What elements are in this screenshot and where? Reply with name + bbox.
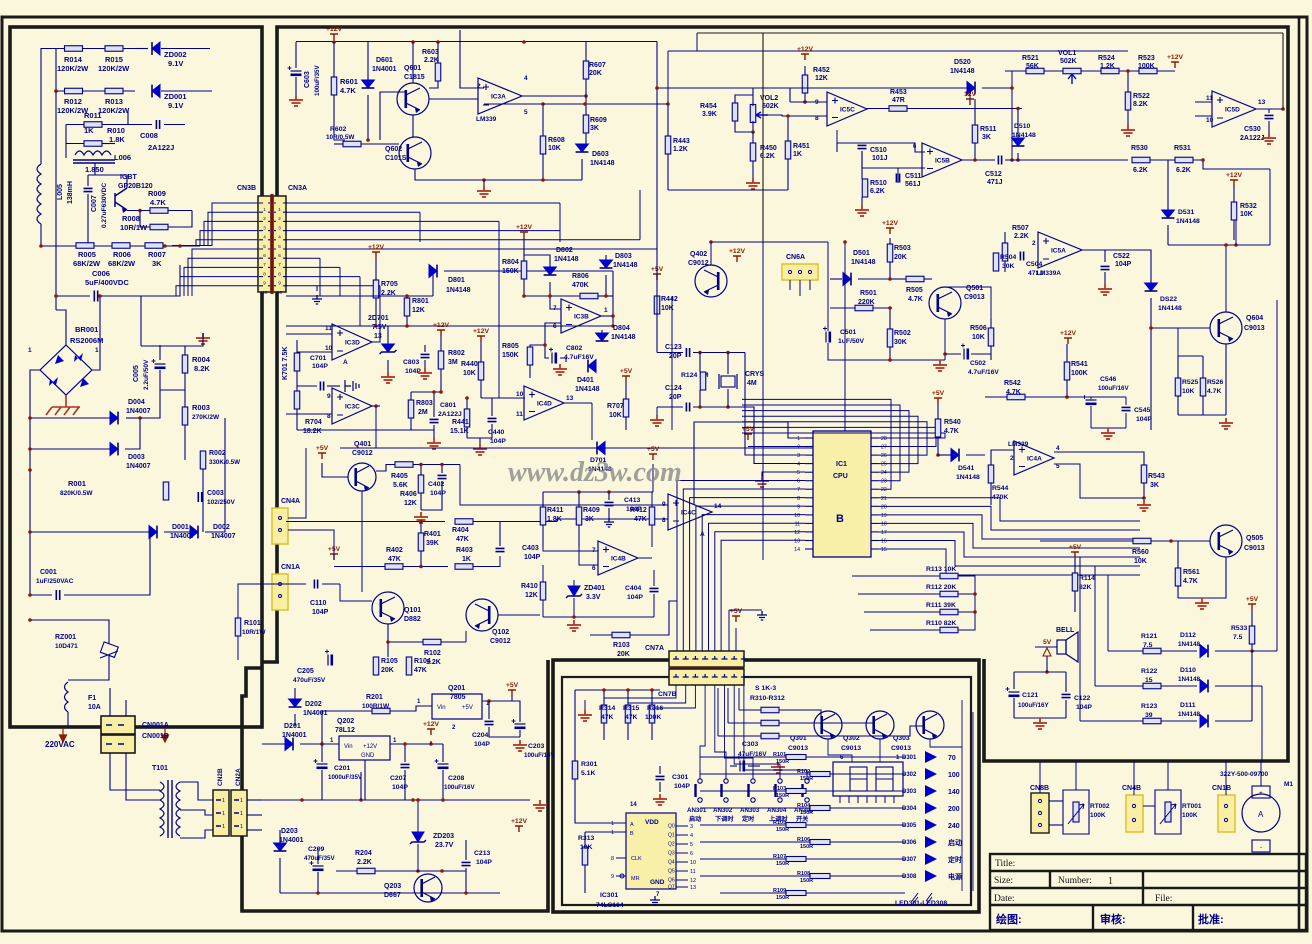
wire — [828, 343, 890, 360]
wire — [879, 549, 1140, 575]
wire — [1235, 220, 1237, 245]
svg-text:100uF/35V: 100uF/35V — [314, 65, 321, 96]
wire — [388, 624, 423, 642]
wire — [962, 159, 995, 161]
ground — [746, 178, 760, 189]
switch AN302 — [724, 779, 728, 783]
wire — [413, 464, 460, 466]
resistor R524 — [1101, 68, 1119, 74]
svg-text:11: 11 — [795, 521, 800, 527]
wire — [56, 295, 90, 297]
power +5V cn7a — [732, 616, 740, 622]
wire — [286, 325, 613, 327]
svg-text:4.7K: 4.7K — [1207, 388, 1221, 395]
wire — [1065, 672, 1067, 692]
wire — [440, 336, 442, 351]
wire — [524, 255, 550, 268]
wire — [718, 735, 761, 737]
svg-text:R010: R010 — [107, 126, 125, 135]
wire — [787, 159, 789, 190]
wire — [444, 270, 613, 272]
resistor R010 — [84, 141, 102, 147]
wire — [659, 766, 661, 774]
svg-text:23.7V: 23.7V — [435, 842, 454, 849]
capacitor C207 — [401, 764, 410, 767]
wire — [160, 346, 185, 355]
svg-text:CN3B: CN3B — [237, 185, 256, 192]
wire — [1225, 344, 1227, 415]
svg-text:D882: D882 — [404, 616, 421, 623]
wire — [549, 282, 551, 296]
wire — [417, 844, 419, 871]
svg-text:R523: R523 — [1138, 55, 1155, 62]
svg-text:15: 15 — [881, 547, 887, 553]
svg-text:R524: R524 — [1098, 55, 1115, 62]
wire — [696, 506, 805, 651]
wire — [585, 133, 587, 147]
wire — [433, 392, 435, 417]
switch AN301 — [698, 779, 702, 783]
svg-text:R806: R806 — [572, 273, 589, 280]
capacitor C502 — [963, 349, 965, 360]
svg-text:R012: R012 — [64, 97, 82, 106]
svg-text:+12V: +12V — [511, 818, 528, 825]
wire — [752, 121, 754, 132]
svg-text:R121: R121 — [1141, 633, 1157, 640]
wire — [768, 115, 827, 116]
wire — [420, 551, 422, 567]
svg-text:R105: R105 — [381, 658, 398, 665]
svg-text:T101: T101 — [152, 765, 168, 772]
capacitor C205 — [327, 655, 329, 666]
wire — [1256, 108, 1283, 110]
resistor R505 — [906, 276, 924, 282]
svg-text:100uF/16V: 100uF/16V — [1098, 385, 1129, 392]
svg-text:1.850: 1.850 — [85, 165, 104, 174]
svg-text:2: 2 — [278, 216, 281, 221]
svg-text:CN001A: CN001A — [142, 722, 169, 729]
ground — [855, 205, 869, 216]
svg-text:CN6A: CN6A — [786, 254, 805, 261]
wire — [286, 239, 640, 241]
wire — [585, 79, 587, 115]
power +5V — [653, 274, 661, 280]
wire — [140, 296, 142, 346]
svg-text:10K: 10K — [548, 145, 561, 152]
svg-text:R609: R609 — [590, 117, 607, 124]
wire — [861, 197, 863, 205]
wire — [1074, 591, 1076, 612]
svg-text:104P: 104P — [524, 554, 541, 561]
svg-text:C123: C123 — [665, 344, 682, 351]
svg-text:27: 27 — [881, 445, 887, 451]
wire — [1177, 396, 1179, 415]
svg-text:Q101: Q101 — [404, 607, 421, 614]
wire — [1035, 646, 1057, 648]
svg-text:10K: 10K — [972, 334, 985, 341]
svg-text:104P: 104P — [392, 784, 408, 791]
svg-text:1000uF/35V: 1000uF/35V — [328, 774, 363, 781]
svg-text:File:: File: — [1155, 894, 1172, 904]
ground — [1101, 428, 1115, 439]
svg-text:CRYS: CRYS — [745, 371, 765, 378]
wire — [1150, 298, 1152, 430]
svg-text:150R: 150R — [776, 793, 789, 799]
svg-text:Vin: Vin — [344, 744, 353, 750]
wire — [1150, 159, 1175, 161]
svg-text:6.2K: 6.2K — [870, 188, 885, 195]
svg-text:4: 4 — [1056, 445, 1060, 452]
svg-text:100: 100 — [948, 772, 960, 779]
capacitor C440 — [488, 418, 497, 421]
wire — [280, 892, 500, 894]
wire — [387, 642, 389, 657]
svg-text:13: 13 — [690, 885, 696, 891]
wire — [1091, 427, 1126, 429]
wire — [542, 525, 544, 547]
svg-text:C9013: C9013 — [964, 294, 985, 301]
svg-text:47K: 47K — [456, 536, 469, 543]
wire — [889, 347, 891, 360]
resistor R008 — [150, 224, 168, 230]
wire — [317, 872, 319, 893]
title block table — [990, 854, 1306, 930]
svg-text:24: 24 — [881, 470, 887, 476]
wire — [286, 248, 657, 250]
svg-text:启动: 启动 — [948, 838, 962, 847]
wire — [1054, 464, 1144, 498]
svg-text:IC5B: IC5B — [935, 158, 950, 165]
svg-text:1.2K: 1.2K — [426, 659, 441, 666]
svg-text:20K: 20K — [589, 70, 602, 77]
wire — [208, 212, 258, 246]
svg-text:5: 5 — [263, 244, 266, 249]
svg-text:D603: D603 — [592, 151, 609, 158]
wire — [295, 42, 297, 68]
svg-text:D307: D307 — [902, 857, 917, 863]
wire — [1161, 650, 1197, 652]
svg-text:C9012: C9012 — [490, 638, 511, 645]
resistor R311 — [761, 720, 779, 726]
svg-text:R401: R401 — [424, 531, 441, 538]
wire — [185, 333, 203, 346]
svg-text:502K: 502K — [1060, 58, 1077, 65]
svg-text:7: 7 — [263, 262, 266, 267]
wire — [489, 727, 520, 737]
opamp IC3C — [332, 388, 372, 424]
transistor Q203 D667 — [414, 874, 442, 902]
wire — [442, 744, 444, 762]
wire — [700, 841, 810, 843]
svg-text:R504: R504 — [1000, 254, 1016, 261]
svg-text:4: 4 — [278, 235, 281, 240]
svg-text:D306: D306 — [902, 840, 917, 846]
wire — [417, 800, 419, 832]
svg-text:C803: C803 — [403, 359, 419, 366]
svg-text:12K: 12K — [404, 500, 417, 507]
wire — [530, 345, 545, 347]
wire — [591, 403, 593, 440]
svg-text:www.dz3w.com: www.dz3w.com — [508, 457, 682, 488]
svg-text:8: 8 — [278, 271, 281, 276]
wire — [1125, 413, 1127, 428]
wire — [1233, 186, 1235, 202]
svg-text:Size:: Size: — [994, 876, 1013, 886]
svg-text:R006: R006 — [113, 250, 131, 259]
wire — [1151, 540, 1210, 542]
resistor R523 — [1139, 68, 1157, 74]
svg-text:R503: R503 — [894, 245, 911, 252]
svg-text:+12V: +12V — [473, 328, 490, 335]
svg-text:R452: R452 — [813, 67, 830, 74]
svg-text:+5V: +5V — [1069, 544, 1082, 551]
wire — [742, 416, 918, 463]
svg-text:10K: 10K — [1240, 211, 1253, 218]
wire — [725, 685, 754, 770]
potentiometer VOL1 — [1063, 68, 1081, 74]
svg-text:S 1K-3: S 1K-3 — [755, 685, 776, 692]
svg-text:D803: D803 — [615, 253, 632, 260]
svg-text:R608: R608 — [548, 137, 565, 144]
wire — [296, 409, 298, 430]
wire — [727, 688, 729, 723]
wire — [238, 584, 288, 618]
wire — [1178, 414, 1226, 416]
svg-text:17: 17 — [881, 530, 887, 536]
wire — [779, 710, 821, 718]
svg-text:R805: R805 — [502, 343, 519, 350]
svg-text:Vin: Vin — [437, 705, 446, 711]
wire — [1178, 328, 1210, 356]
wire — [1005, 159, 1128, 161]
svg-text:100uF/16V: 100uF/16V — [444, 784, 475, 791]
wire — [1215, 720, 1252, 722]
wire — [1168, 244, 1270, 246]
diode D003 — [110, 443, 118, 456]
wire — [1108, 650, 1143, 652]
capacitor C005 — [155, 363, 166, 365]
earth ground — [46, 395, 80, 415]
capacitor C402 — [438, 475, 447, 478]
wire — [1127, 71, 1129, 92]
svg-text:+5V: +5V — [932, 390, 945, 397]
wire — [578, 525, 580, 547]
wire — [286, 230, 560, 232]
svg-text:C404: C404 — [625, 585, 641, 592]
resistor R442 — [654, 296, 660, 314]
svg-text:R602: R602 — [330, 126, 346, 133]
wire — [297, 351, 332, 353]
capacitor gnd sym — [345, 380, 359, 392]
svg-text:5.6K: 5.6K — [393, 482, 408, 489]
wire — [1049, 824, 1063, 826]
wire — [542, 104, 544, 136]
wire — [1104, 272, 1106, 284]
svg-text:MR: MR — [631, 876, 640, 882]
resistor K701b — [294, 391, 300, 409]
wire — [410, 392, 412, 400]
wire — [340, 447, 845, 449]
svg-text:R103: R103 — [613, 642, 630, 649]
wire — [512, 701, 520, 722]
svg-text:6.2K: 6.2K — [1176, 167, 1191, 174]
svg-text:+12V: +12V — [326, 26, 343, 33]
wire — [1251, 644, 1253, 651]
svg-text:R008: R008 — [122, 214, 140, 223]
wire — [584, 700, 586, 710]
resistor R007 — [145, 243, 163, 249]
svg-text:D531: D531 — [1178, 209, 1194, 216]
wire — [683, 489, 805, 651]
svg-text:82K: 82K — [1079, 584, 1092, 591]
svg-text:18.2K: 18.2K — [303, 428, 322, 435]
wire — [830, 278, 842, 280]
svg-text:78L12: 78L12 — [335, 727, 355, 734]
resistor R404 — [455, 519, 473, 525]
wire — [411, 391, 441, 393]
wire — [56, 310, 66, 345]
resistor R301 — [572, 761, 578, 779]
svg-text:R601: R601 — [340, 77, 358, 86]
svg-text:R506: R506 — [970, 325, 987, 332]
svg-text:2A122J: 2A122J — [1240, 135, 1265, 142]
wire — [160, 370, 185, 390]
svg-text:C413: C413 — [624, 497, 640, 504]
wire — [559, 203, 561, 242]
wire — [30, 470, 150, 532]
power +12V — [1230, 180, 1238, 186]
svg-text:3: 3 — [263, 225, 266, 230]
opamp IC4D — [524, 386, 564, 420]
svg-text:1: 1 — [1108, 876, 1113, 887]
ground — [289, 95, 303, 106]
wire — [55, 49, 57, 92]
svg-text:+12V: +12V — [882, 220, 899, 227]
wire — [480, 380, 482, 398]
capacitor C504 — [1020, 252, 1023, 261]
svg-text:5: 5 — [690, 842, 693, 848]
svg-text:104P: 104P — [476, 859, 492, 866]
svg-text:R543: R543 — [1148, 473, 1165, 480]
svg-text:200: 200 — [948, 806, 960, 813]
svg-text:101J: 101J — [872, 155, 888, 162]
wire — [656, 42, 658, 353]
wire — [717, 688, 719, 736]
wire — [491, 424, 493, 438]
wire — [709, 523, 806, 651]
wire — [579, 547, 598, 565]
svg-text:1: 1 — [611, 821, 614, 827]
wire — [441, 465, 443, 474]
svg-text:D203: D203 — [281, 828, 298, 835]
svg-text:2M: 2M — [418, 409, 428, 416]
power +12V — [477, 336, 485, 342]
wire — [1090, 406, 1092, 428]
svg-text:Q0: Q0 — [668, 824, 675, 830]
svg-text:1uF/50V: 1uF/50V — [838, 338, 865, 345]
svg-text:L006: L006 — [114, 153, 131, 162]
capacitor C501 — [825, 332, 827, 343]
svg-text:4: 4 — [524, 75, 528, 82]
wire — [1193, 160, 1270, 169]
wire — [441, 641, 466, 643]
wire — [387, 326, 389, 344]
wire — [180, 277, 258, 296]
wire — [387, 360, 389, 372]
resistor R532 — [1231, 202, 1237, 220]
ground — [650, 896, 660, 905]
svg-text:2.2K: 2.2K — [1014, 233, 1029, 240]
wire — [294, 714, 296, 726]
switch AN303 — [751, 779, 755, 783]
wire — [667, 51, 669, 104]
svg-text:电源: 电源 — [948, 872, 962, 881]
svg-text:D111: D111 — [1180, 702, 1196, 709]
keyboard display block frame inner — [562, 677, 971, 905]
wire — [937, 437, 939, 455]
wire — [430, 741, 432, 744]
wire — [294, 688, 296, 700]
svg-text:R410: R410 — [521, 583, 538, 590]
svg-text:30K: 30K — [1002, 263, 1015, 270]
svg-text:IC3C: IC3C — [345, 404, 360, 411]
resistor R402 — [385, 564, 403, 570]
resistor R105 — [373, 657, 379, 675]
wire — [790, 101, 827, 103]
wire — [744, 685, 807, 770]
svg-text:13: 13 — [1258, 99, 1266, 106]
svg-text:3K: 3K — [1150, 482, 1159, 489]
svg-text:0.27uF630VDC: 0.27uF630VDC — [101, 183, 108, 228]
wire — [126, 417, 140, 419]
svg-text:8.2K: 8.2K — [194, 364, 210, 373]
zener ZD401 — [568, 586, 580, 596]
svg-text:R441: R441 — [452, 419, 469, 426]
resistor R531 — [1175, 157, 1193, 163]
wire — [748, 765, 760, 767]
svg-text:CN1B: CN1B — [1212, 785, 1231, 792]
svg-text:13: 13 — [566, 395, 574, 402]
svg-text:启动: 启动 — [689, 815, 701, 823]
wire — [361, 491, 363, 592]
svg-text:R522: R522 — [1133, 93, 1150, 100]
wire — [972, 712, 974, 891]
svg-text:6: 6 — [278, 253, 281, 258]
power +12V — [886, 228, 894, 234]
wire — [867, 108, 889, 110]
ground — [312, 295, 322, 304]
wire — [604, 685, 676, 698]
wire — [1202, 396, 1204, 415]
svg-text:104P: 104P — [1076, 704, 1092, 711]
svg-text:R411: R411 — [547, 507, 563, 514]
cpu left pins — [805, 437, 813, 439]
svg-text:R561: R561 — [1183, 569, 1200, 576]
svg-text:1N4148: 1N4148 — [554, 256, 579, 263]
wire — [479, 438, 481, 444]
svg-text:L005: L005 — [57, 184, 64, 200]
svg-text:D301: D301 — [902, 755, 917, 761]
svg-text:R015: R015 — [105, 55, 123, 64]
wire — [735, 121, 753, 132]
svg-text:R001: R001 — [68, 479, 86, 488]
wire — [897, 168, 899, 183]
wire — [1178, 557, 1226, 598]
svg-text:100uF/16Y: 100uF/16Y — [1018, 702, 1049, 709]
svg-text:R402: R402 — [386, 547, 403, 554]
ground — [578, 710, 592, 721]
arrow 220VAC right — [162, 728, 169, 742]
